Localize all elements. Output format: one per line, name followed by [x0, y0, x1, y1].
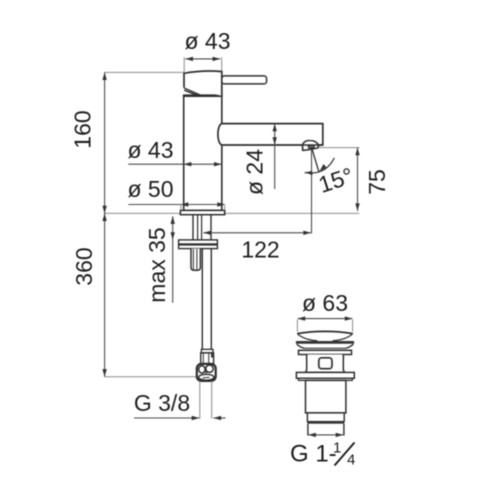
arrow max35 top [171, 216, 175, 224]
drain locknut lower band [299, 378, 353, 380]
nut bottom face line [203, 376, 210, 379]
arrow tail right [336, 433, 344, 437]
drain top plate [299, 350, 352, 354]
body top thick line [183, 94, 223, 97]
dim 160/360 vertical line [104, 72, 106, 376]
arrow ø63 right [345, 316, 353, 320]
arrow mid ø43 left [184, 162, 192, 166]
15 degree jet line [312, 148, 319, 172]
threaded shank left line [192, 215, 194, 240]
arrow 75 top [355, 148, 359, 156]
svg-text:ø 43: ø 43 [184, 28, 230, 54]
ext line top ø43 right [221, 57, 223, 71]
flexible hose left line [201, 249, 203, 350]
ext line ø63 right [352, 320, 354, 332]
drain seal cone left [297, 344, 305, 348]
mounting stud left line [197, 215, 199, 240]
15 degree arc [305, 158, 335, 173]
aerator [303, 140, 319, 150]
drain lower body [306, 380, 346, 413]
hose nut G3/8 [197, 364, 216, 381]
arrow mid ø43 right [214, 162, 222, 166]
ext line ø50 right [224, 206, 226, 211]
arrow 160 top [102, 72, 106, 80]
svg-text:122: 122 [241, 237, 279, 263]
stud end cylinder [191, 249, 200, 271]
drain upper body [306, 355, 345, 373]
hose bottom ext line left [199, 381, 201, 419]
arrow 122 left [203, 231, 211, 235]
aerator outlet insert [308, 145, 314, 148]
hose bottom ext line right [211, 381, 213, 419]
hose ferrule [201, 349, 213, 353]
svg-text:75: 75 [364, 169, 390, 195]
arc arrowhead left [305, 171, 313, 175]
stud end inner line 1 [192, 249, 194, 270]
spout [218, 124, 323, 145]
aerator horizontal reference line [319, 147, 360, 149]
arrow hose dim left [192, 416, 200, 420]
flexible hose right line [210, 249, 212, 350]
arrow hose dim right [214, 416, 222, 420]
reference line cap top to 160 dim [105, 71, 184, 73]
ext line ø50 left [180, 206, 182, 211]
svg-text:ø 24: ø 24 [242, 149, 268, 195]
arrow ø63 left [298, 316, 306, 320]
faucet body [184, 96, 222, 211]
arrow 122 right [303, 231, 311, 235]
dim middle ø43 line [128, 163, 221, 165]
drain cap top dome [297, 331, 353, 333]
dim 122 line [203, 232, 311, 234]
arc arrowhead mid [320, 164, 327, 171]
arrow 360 top [102, 213, 106, 221]
arrow 160 bottom [102, 206, 106, 214]
handle cap U1 [184, 71, 222, 96]
arrow ø24 top [273, 124, 277, 132]
dim 75 vertical line [357, 148, 359, 211]
arrow 75 bottom [355, 203, 359, 211]
svg-text:G 3/8: G 3/8 [134, 390, 190, 416]
svg-text:ø 63: ø 63 [302, 290, 348, 316]
dim ø50 line [128, 204, 225, 206]
hose bottom dim line left segment [134, 417, 199, 419]
nut center wedge [205, 371, 208, 374]
spout bottom edge through aerator [302, 144, 323, 146]
hose fitting body [201, 353, 214, 364]
base flange [180, 210, 224, 214]
reference line countertop level [105, 212, 360, 214]
arrow ø24 bottom [273, 137, 277, 145]
washer bar [179, 240, 218, 244]
drain cap underside right curve [333, 334, 353, 341]
svg-text:360: 360 [71, 247, 97, 285]
drain overflow hole [319, 358, 332, 369]
mounting nut bar [179, 245, 218, 249]
arrow max35 bottom [171, 232, 175, 240]
arrow tail left [308, 433, 316, 437]
nut bottom face [199, 374, 214, 380]
mounting stud right line [201, 215, 203, 240]
ext line top ø43 left [183, 57, 185, 72]
svg-text:ø 50: ø 50 [127, 176, 173, 202]
label fraction slash [335, 443, 355, 466]
stud end inner line 2 [196, 249, 198, 270]
ext line ø63 left [296, 320, 298, 332]
dim max35 vertical line [172, 216, 174, 302]
drain seal cone right [345, 344, 353, 348]
lever handle [222, 76, 267, 84]
arrow top ø43 left [185, 57, 193, 61]
aerator vertical extension line [311, 150, 313, 234]
drain dim ø63 line [298, 318, 353, 320]
dim top ø43 line [185, 58, 220, 60]
drain tail left line [307, 424, 309, 436]
drain cap rim dark band [296, 341, 355, 344]
drain tail dim line [308, 434, 343, 436]
threaded shank right line [210, 215, 212, 240]
nut facet right [206, 365, 213, 372]
drain locknut [296, 372, 354, 378]
fitting inner line 2 [208, 353, 210, 363]
drain seal base line [305, 347, 345, 349]
cap tilt diagonal 2 [184, 90, 198, 95]
hose bottom dim line right segment [214, 417, 226, 419]
arrow 360 bottom [102, 369, 106, 377]
drain tail upper [307, 413, 344, 422]
drain cap underside left curve [297, 334, 317, 341]
nut facet left [199, 366, 205, 373]
svg-text:max 35: max 35 [144, 227, 170, 302]
svg-text:ø 43: ø 43 [127, 137, 173, 163]
reference line hose nut to 360 dim (G 3/8 leader) [105, 376, 198, 378]
arrow top ø43 right [213, 57, 221, 61]
dim ø24 vertical line [274, 124, 276, 189]
drain tail dark band [307, 422, 344, 424]
arrow ø50 left [181, 202, 189, 206]
fitting dark patch [211, 353, 214, 357]
arrow ø50 right [217, 202, 225, 206]
svg-text:4: 4 [347, 452, 355, 469]
drain tail right line [343, 424, 345, 436]
fitting inner line 1 [202, 353, 204, 363]
svg-text:1: 1 [333, 440, 341, 457]
cap tilt diagonal 1 [184, 88, 201, 95]
svg-text:G 1-: G 1- [290, 441, 337, 468]
svg-text:160: 160 [70, 110, 96, 148]
